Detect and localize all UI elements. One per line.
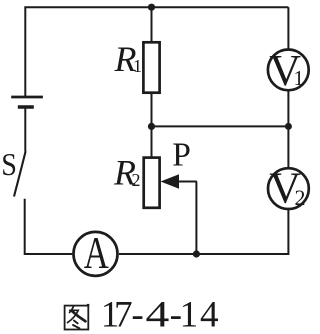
resistor R1 bbox=[143, 42, 159, 92]
svg-text:S: S bbox=[1, 147, 17, 183]
wire V2 to bottom rail bbox=[119, 210, 288, 254]
wire R1 top lead bbox=[151, 7, 153, 41]
wiper arrow of R2 bbox=[161, 174, 197, 189]
switch blade bbox=[14, 151, 26, 196]
label S bbox=[1, 147, 17, 183]
svg-text:2: 2 bbox=[132, 170, 141, 190]
voltmeter V1 bbox=[268, 46, 309, 95]
caption figure number bbox=[101, 294, 219, 334]
wire wiper riser bbox=[195, 182, 197, 255]
label R2 bbox=[113, 153, 141, 193]
wire middle rail bbox=[152, 125, 289, 127]
svg-text:A: A bbox=[84, 227, 110, 278]
node bottom junction bbox=[193, 250, 200, 257]
svg-text:4: 4 bbox=[146, 294, 170, 334]
resistor R2 bbox=[144, 158, 160, 208]
battery bbox=[11, 97, 43, 107]
svg-text:2: 2 bbox=[295, 185, 306, 210]
node middle-right junction bbox=[285, 123, 292, 130]
svg-text:1: 1 bbox=[294, 66, 305, 90]
wire switch to bottom-left corner bbox=[25, 199, 73, 254]
svg-text:1: 1 bbox=[133, 56, 142, 76]
label R1 bbox=[114, 39, 143, 79]
wire R2 top lead bbox=[151, 126, 153, 156]
wire battery to switch bbox=[24, 108, 26, 152]
svg-text:P: P bbox=[172, 137, 191, 174]
caption character tu (figure) bbox=[65, 304, 90, 330]
wire R1 bottom lead bbox=[151, 94, 153, 127]
node top junction bbox=[148, 4, 155, 11]
svg-text:17-: 17- bbox=[101, 295, 144, 334]
node middle-left junction bbox=[148, 123, 155, 130]
voltmeter V2 bbox=[268, 164, 309, 213]
wire right rail to V1 bbox=[287, 7, 289, 48]
svg-text:-14: -14 bbox=[170, 295, 219, 334]
wire V1 to V2 bbox=[287, 91, 289, 167]
wire top rail bbox=[25, 7, 288, 96]
ammeter A bbox=[74, 227, 118, 278]
